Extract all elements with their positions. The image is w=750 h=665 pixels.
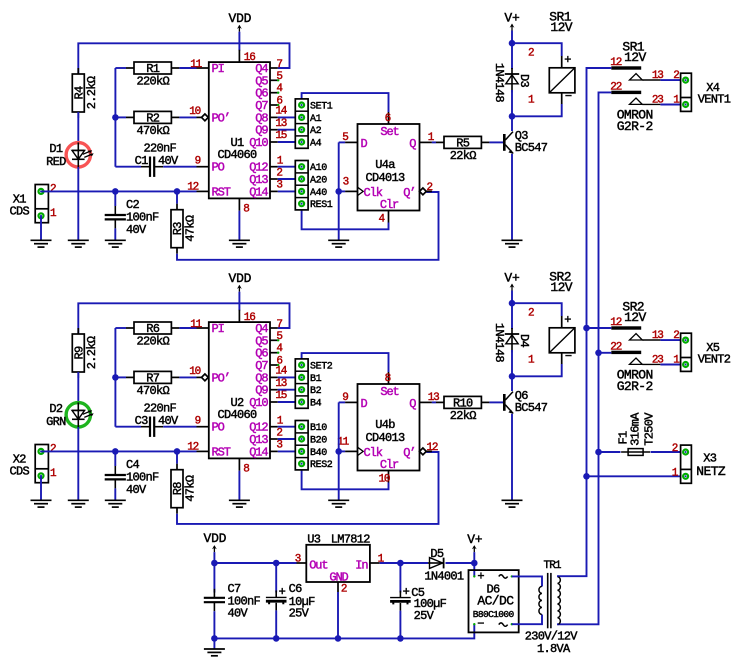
junction VDD node at C7: [211, 560, 218, 567]
pin number 2 (U1 Q13): [276, 167, 282, 179]
wire contact 13 to X5 pin 2: [660, 339, 685, 341]
resistor R8: [171, 464, 198, 514]
svg-text:40V: 40V: [228, 606, 249, 620]
svg-text:V+: V+: [467, 532, 483, 547]
svg-text:3: 3: [343, 177, 349, 189]
power symbol VDD (supply output): [203, 531, 226, 552]
pin number 13 (contact SR1): [652, 70, 663, 82]
svg-text:A2: A2: [310, 126, 322, 137]
resistor R3: [171, 204, 198, 254]
pin number 9 (U1 PO): [195, 156, 201, 168]
pin number 16 (U1 VDD): [244, 52, 255, 64]
resistor R10: [436, 396, 489, 423]
capacitor C7: [204, 563, 261, 638]
connector X3 NETZ: [681, 445, 726, 483]
wire U4a Q to R5: [432, 141, 436, 143]
wire VDD to regulator output node: [213, 552, 215, 563]
wire R7 to U2 PO' pin 10: [179, 376, 201, 378]
svg-text:RST: RST: [212, 445, 231, 459]
pin number 2 of X1: [50, 184, 56, 196]
wire V+ symbol stub: [473, 552, 475, 563]
junction ground rail at C5: [397, 635, 404, 642]
svg-text:Q’: Q’: [403, 446, 415, 460]
svg-text:12V: 12V: [550, 280, 572, 295]
wire Q6 collector to D4: [511, 376, 513, 391]
svg-text:3: 3: [295, 554, 301, 566]
ground under U2: [229, 500, 250, 507]
wire R4 to D1: [77, 112, 79, 143]
svg-text:CDS: CDS: [10, 464, 30, 478]
svg-text:Q’: Q’: [403, 186, 415, 200]
pin number 12 (U1 RST): [187, 182, 198, 194]
junction ground rail at C6: [273, 635, 280, 642]
pin number 12 (U2 RST): [187, 442, 198, 454]
connector X2 CDS: [10, 445, 49, 483]
svg-text:D: D: [361, 397, 368, 411]
power symbol V+ (supply): [467, 532, 483, 552]
ground under Q6: [502, 500, 523, 507]
svg-text:RED: RED: [46, 155, 66, 169]
relay contact SR2 12 (NO): [610, 299, 660, 340]
svg-text:B40: B40: [310, 448, 327, 459]
relay contact SR1 12 (NO): [610, 39, 660, 80]
resistor R7: [126, 371, 179, 398]
pin number 1 (coil SR2): [528, 354, 535, 366]
IC U1 CD4060: [209, 50, 280, 211]
svg-text:U3: U3: [307, 532, 321, 546]
svg-text:B2: B2: [310, 386, 322, 397]
svg-text:10: 10: [379, 474, 390, 486]
resistor R6: [126, 322, 179, 349]
svg-text:12: 12: [610, 57, 621, 69]
wire mains bus N to fuse F1: [599, 451, 621, 453]
svg-text:RES2: RES2: [310, 460, 333, 471]
svg-text:2: 2: [528, 48, 534, 60]
pin number 2 of X5: [673, 330, 679, 342]
pin number 1 (coil SR1): [528, 94, 535, 106]
wire C3 to U2 PO pin 9: [163, 426, 209, 428]
wire RST net down to R8: [176, 451, 178, 463]
flyback diode D4 1N4148: [492, 323, 531, 363]
wire V+ to D4 and coil: [511, 291, 513, 330]
wire Q13 to B20: [278, 438, 302, 440]
svg-text:220kΩ: 220kΩ: [136, 335, 169, 349]
svg-text:22kΩ: 22kΩ: [450, 149, 477, 163]
pin number 2 (U4a Q'): [427, 182, 433, 194]
svg-text:25V: 25V: [414, 609, 435, 623]
svg-text:Clr: Clr: [380, 198, 399, 212]
svg-text:+: +: [477, 570, 484, 584]
svg-text:A20: A20: [310, 176, 327, 187]
svg-text:9: 9: [195, 156, 201, 168]
svg-text:3: 3: [276, 440, 282, 452]
wire SET1 to U4a Set: [302, 93, 389, 124]
wire Q9 to A2: [278, 129, 302, 131]
resistor R2: [126, 111, 179, 138]
wire SR2 contact 22 tap: [599, 352, 612, 354]
junction mains bus N at fuse: [595, 449, 602, 456]
svg-text:C1: C1: [135, 154, 149, 168]
junction R2 left: [112, 114, 119, 121]
wire R7 left stub: [115, 376, 126, 378]
wire D1 cathode to ground: [77, 167, 79, 240]
connector X1 CDS: [10, 185, 49, 223]
pin number 11 (U1 PI): [190, 59, 202, 71]
svg-text:2: 2: [673, 70, 679, 82]
wire R1 left: [115, 67, 126, 69]
pin number 6 (U2 Q7): [276, 355, 282, 367]
pin number 4 (U4a Clr): [379, 214, 386, 226]
wire R6 left: [115, 327, 126, 329]
pin number 10 (U2 PO'): [189, 366, 200, 378]
ground under D2: [68, 500, 89, 507]
svg-text:22: 22: [610, 82, 621, 94]
wire U4b D and Clk to ground: [339, 402, 345, 500]
pin number 14 (U1 Q8): [275, 106, 287, 118]
svg-text:12: 12: [427, 442, 438, 454]
svg-text:Clk: Clk: [364, 446, 383, 460]
pin number 10 (U1 PO'): [189, 106, 200, 118]
svg-text:40V: 40V: [126, 223, 147, 237]
svg-text:8: 8: [385, 373, 391, 385]
wire relay coil SR1 pin 1 to collector node: [512, 93, 562, 117]
pin number 1 (U1 Q12): [277, 155, 284, 167]
svg-text:2.2kΩ: 2.2kΩ: [85, 76, 99, 109]
svg-text:11: 11: [190, 59, 202, 71]
pin number 8 (U2 VSS): [243, 464, 249, 476]
svg-text:D: D: [361, 137, 368, 151]
svg-text:8: 8: [243, 464, 249, 476]
pin number 6 (U1 Q7): [276, 95, 282, 107]
svg-text:VENT1: VENT1: [698, 93, 731, 107]
pin number 1 of X4: [673, 94, 680, 106]
svg-text:5: 5: [276, 331, 282, 343]
power symbol V+ (second section): [504, 270, 520, 290]
wire D3 to collector node: [511, 90, 513, 116]
svg-text:+: +: [403, 585, 410, 599]
wire bridge - pin to ground rail: [400, 624, 474, 638]
svg-text:Clk: Clk: [364, 186, 383, 200]
pin number 2 (coil SR1): [528, 48, 534, 60]
svg-text:12V: 12V: [624, 310, 646, 325]
pin number 5 (U1 Q5): [276, 71, 282, 83]
pin header block A10/A20/A40/RES1: [295, 161, 333, 212]
pin number 13 (contact SR2): [652, 330, 663, 342]
relay coil SR1 12V: [549, 9, 575, 103]
ground under U4a: [328, 240, 349, 247]
wire net from SR1 contact 22 down mains bus N: [558, 92, 611, 624]
wire Q14 to B40: [278, 450, 302, 452]
svg-text:47kΩ: 47kΩ: [184, 475, 198, 502]
svg-text:12: 12: [187, 182, 198, 194]
wire X2 pin 1 to ground: [40, 476, 42, 501]
junction at R3 top: [174, 188, 181, 195]
svg-text:A1: A1: [310, 114, 322, 125]
relay coil SR2 12V: [549, 269, 575, 363]
svg-text:2: 2: [427, 182, 433, 194]
svg-text:PI: PI: [212, 322, 224, 336]
pin number 14 (U2 Q8): [275, 366, 287, 378]
ground under X2: [31, 500, 52, 507]
pin number 9 (U4b D): [342, 392, 348, 404]
label OMRON G2R-2 (SR2): [617, 368, 653, 395]
flyback diode D3 1N4148: [492, 63, 531, 103]
capacitor C6 10uF: [266, 563, 315, 638]
resistor R4: [72, 68, 99, 118]
svg-text:CDS: CDS: [10, 204, 30, 218]
wire RES1 to U4a Clr: [302, 204, 389, 230]
svg-text:Q14: Q14: [249, 445, 268, 459]
svg-text:1N4148: 1N4148: [492, 63, 506, 103]
svg-text:1N4148: 1N4148: [492, 323, 506, 363]
wire RST net down to C4: [114, 451, 116, 466]
transformer TR1 230V/12V: [525, 560, 579, 656]
junction ground rail at U3 GND: [335, 635, 342, 642]
svg-text:2: 2: [528, 308, 534, 320]
svg-text:2: 2: [673, 330, 679, 342]
resistor R9: [72, 328, 99, 378]
ground under U4b: [328, 500, 349, 507]
ground under Q3: [502, 240, 523, 247]
transistor Q6 BC547: [503, 389, 548, 415]
ground under C2: [105, 240, 126, 247]
junction mains bus N at SR2 contact 22: [595, 350, 602, 357]
svg-text:VDD: VDD: [228, 11, 251, 26]
wire contact 23 to X4 pin 1: [660, 104, 685, 106]
svg-text:Out: Out: [309, 559, 327, 573]
svg-text:2: 2: [50, 184, 56, 196]
svg-text:22kΩ: 22kΩ: [450, 409, 477, 423]
pin number 13 (U4b Q): [428, 392, 439, 404]
wire R9 to D2: [77, 372, 79, 403]
wire fuse F1 to X3 pin 2: [651, 451, 686, 453]
wire C1 to U1 PO pin 9: [163, 166, 209, 168]
svg-text:A40: A40: [310, 188, 327, 199]
svg-text:−: −: [565, 350, 572, 364]
junction at R8 top: [174, 448, 181, 455]
connector X5 VENT2: [681, 333, 731, 371]
ground under X1: [31, 240, 52, 247]
pin number 1 of X1: [50, 208, 57, 220]
pin number 4 (U2 Q6): [276, 343, 283, 355]
svg-text:25V: 25V: [289, 606, 310, 620]
svg-text:−: −: [565, 90, 572, 104]
pin number 11 (U4b Clk): [337, 437, 349, 449]
pin header block B10/B20/B40/RES2: [295, 421, 333, 472]
feedback wire R3 to U4a Q': [177, 192, 439, 260]
wire RST net down to C2: [114, 191, 116, 206]
svg-text:6: 6: [385, 113, 391, 125]
junction R7 left: [112, 374, 119, 381]
wire Q3 collector to D3: [511, 116, 513, 131]
svg-text:PO: PO: [212, 161, 225, 175]
wire C4 to ground: [114, 488, 116, 500]
wire RES2 to U4b Clr: [302, 464, 389, 490]
svg-text:B4: B4: [310, 399, 322, 410]
wire RST net X1 pin 2 to U1 RST: [41, 190, 209, 192]
junction at C4 top: [112, 448, 119, 455]
svg-text:316mA: 316mA: [628, 412, 642, 446]
svg-text:10: 10: [189, 366, 200, 378]
capacitor C3: [135, 402, 179, 437]
wire R1/R2/C1 common node: [115, 68, 141, 167]
pin number 3 (U1 Q14): [276, 180, 282, 192]
svg-text:In: In: [355, 559, 368, 573]
wire V+ node to relay coil SR1 pin 2: [512, 43, 562, 68]
svg-text:+: +: [564, 313, 571, 327]
svg-text:VENT2: VENT2: [698, 353, 731, 367]
svg-text:12V: 12V: [624, 50, 646, 65]
svg-text:BC547: BC547: [515, 141, 548, 155]
svg-text:V+: V+: [504, 270, 520, 285]
pin number 5 (U2 Q5): [276, 331, 282, 343]
power symbol VDD (first section): [228, 11, 251, 32]
capacitor C4: [105, 458, 159, 497]
pin number 2 of X3: [672, 443, 678, 455]
svg-text:B10: B10: [310, 423, 327, 434]
svg-text:14: 14: [275, 106, 287, 118]
ground rail of power supply: [214, 637, 400, 639]
wire bridge ~ to TR1 secondary bottom: [512, 615, 542, 625]
svg-text:D5: D5: [430, 547, 444, 561]
wire U4a D and Clk to ground: [339, 142, 345, 240]
wire Q12 to A10: [278, 166, 302, 168]
svg-text:22: 22: [610, 342, 621, 354]
pin number 2 (U3 GND): [341, 584, 347, 596]
IC U2 CD4060: [209, 310, 280, 471]
svg-text:10: 10: [189, 106, 200, 118]
junction V+ node second: [509, 300, 516, 307]
LED D2 GRN: [46, 402, 94, 429]
wire Q10 to B4: [278, 401, 302, 403]
pin number 8 (U4b Set): [385, 373, 391, 385]
pin number 7 (U1 Q4): [276, 59, 282, 71]
ground under D1: [68, 240, 89, 247]
svg-text:B20: B20: [310, 436, 327, 447]
ground under C4: [105, 500, 126, 507]
svg-text:40V: 40V: [126, 483, 147, 497]
junction collector node first: [509, 113, 516, 120]
feedback wire R8 to U4b Q': [177, 452, 439, 524]
wire U4b Q to R10: [432, 401, 436, 403]
svg-text:15: 15: [275, 130, 286, 142]
svg-text:A4: A4: [310, 139, 322, 150]
wire U2 Q4 to R9 (top horizontal): [78, 303, 289, 334]
svg-text:T250V: T250V: [642, 412, 656, 446]
svg-text:2: 2: [341, 584, 347, 596]
svg-text:C3: C3: [135, 414, 149, 428]
svg-text:470kΩ: 470kΩ: [136, 384, 169, 398]
svg-text:BC547: BC547: [515, 401, 548, 415]
svg-text:470kΩ: 470kΩ: [136, 124, 169, 138]
wire bridge ~ to TR1 secondary top: [512, 576, 542, 586]
svg-text:Set: Set: [380, 385, 398, 399]
svg-text:AC/DC: AC/DC: [477, 594, 514, 609]
pin header block SET2/B1/B2/B4: [295, 359, 333, 410]
wire U1 Q4 to R4 (top horizontal): [78, 43, 289, 74]
wire R5 to Q3 base: [489, 141, 503, 143]
wire D5 to V+ node: [446, 562, 475, 564]
wire Q10 to A4: [278, 141, 302, 143]
transistor Q3 BC547: [503, 129, 548, 155]
wire R10 to Q6 base: [489, 401, 503, 403]
svg-text:2: 2: [50, 444, 56, 456]
wire Q14 to A40: [278, 190, 302, 192]
flip-flop U4a CD4013: [345, 124, 432, 212]
wire Q12 to B10: [278, 426, 302, 428]
wire Q13 to A20: [278, 178, 302, 180]
pin number 12 (U4b Q'): [427, 442, 438, 454]
pin number 1 (U4a Q): [428, 132, 435, 144]
svg-text:A10: A10: [310, 163, 327, 174]
pin number 2 of X4: [673, 70, 679, 82]
svg-text:+: +: [279, 585, 286, 599]
pin number 2 (U2 Q13): [276, 427, 282, 439]
svg-text:15: 15: [275, 390, 286, 402]
pin number 10 (U4b Clr): [379, 474, 390, 486]
wire contact 23 to X5 pin 1: [660, 364, 685, 366]
svg-text:Clr: Clr: [380, 458, 399, 472]
wire R6/R7/C3 common node: [115, 328, 141, 427]
ground under U1: [229, 240, 250, 247]
svg-text:RST: RST: [212, 185, 231, 199]
wire R2 to U1 PO' pin 10: [179, 116, 201, 118]
svg-text:13: 13: [275, 118, 286, 130]
svg-text:Q14: Q14: [249, 185, 268, 199]
power symbol VDD (second section): [228, 271, 251, 292]
svg-text:220kΩ: 220kΩ: [136, 75, 169, 89]
voltage regulator U3 LM7812: [306, 532, 379, 592]
wire R2 left stub: [115, 116, 126, 118]
wire Q3 emitter to ground: [511, 154, 513, 241]
pin number 2 of X2: [50, 444, 56, 456]
diode D5 1N4001: [424, 547, 464, 584]
svg-text:VDD: VDD: [203, 531, 226, 546]
relay contact SR2 22 (NO): [610, 342, 660, 365]
svg-text:7: 7: [276, 59, 282, 71]
svg-text:CD4060: CD4060: [217, 408, 257, 422]
pin number 11 (U2 PI): [190, 319, 202, 331]
junction U4a Clk: [335, 188, 342, 195]
pin number 1 of X5: [673, 354, 680, 366]
svg-text:11: 11: [190, 319, 202, 331]
junction at C2 top: [112, 188, 119, 195]
wire TR1 primary bottom to mains bus N: [557, 623, 559, 625]
wire Q6 emitter to ground: [511, 414, 513, 501]
wire VDD to U2 pin 16: [238, 292, 240, 311]
svg-text:B80C1000: B80C1000: [473, 609, 515, 620]
pin number 1 of X2: [50, 468, 57, 480]
svg-text:12: 12: [187, 442, 198, 454]
pin number 7 (U2 Q4): [276, 319, 282, 331]
svg-text:3: 3: [276, 180, 282, 192]
connector X4 VENT1: [681, 73, 731, 111]
svg-text:TR1: TR1: [544, 560, 562, 572]
svg-text:D4: D4: [517, 334, 531, 348]
capacitor C1: [135, 142, 179, 177]
svg-text:16: 16: [244, 312, 255, 324]
wire relay coil SR2 pin 1 to collector node: [512, 353, 562, 377]
pin number 8 (U1 VSS): [243, 204, 249, 216]
junction ground rail at C7: [211, 635, 218, 642]
svg-text:Q: Q: [409, 397, 416, 411]
svg-text:PI: PI: [212, 62, 224, 76]
svg-text:CD4060: CD4060: [217, 148, 257, 162]
svg-text:G2R-2: G2R-2: [617, 119, 653, 134]
wire Q9 to B2: [278, 389, 302, 391]
wire Q8 to B1: [278, 376, 302, 378]
wire U3 In to D5: [380, 562, 428, 564]
